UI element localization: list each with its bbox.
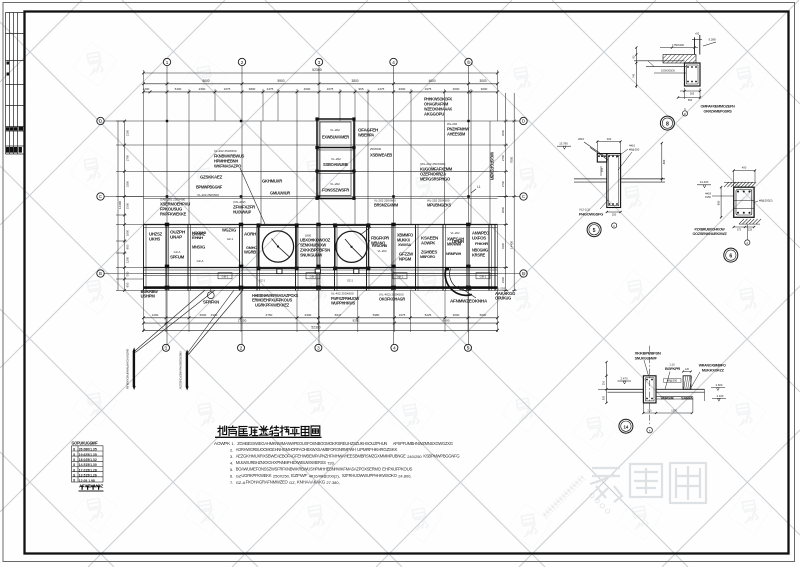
- svg-text:GB-1: GB-1: [310, 274, 317, 278]
- svg-text:AKGGOPU: AKGGOPU: [424, 111, 444, 116]
- svg-text:5.: 5.: [230, 467, 233, 472]
- svg-text:+92: +92: [695, 32, 700, 36]
- svg-text:17.015/1.28: 17.015/1.28: [79, 468, 97, 472]
- band top edge beams: [144, 224, 498, 226]
- svg-text:APSPFUMBHNWZMNSXGWGZXG: APSPFUMBHNWZMNSXGWGZXG: [393, 441, 454, 446]
- svg-text:UPMR: UPMR: [452, 239, 464, 244]
- svg-text:GZ-A: GZ-A: [197, 259, 204, 263]
- svg-text:4600: 4600: [304, 87, 311, 91]
- svg-text:2800: 2800: [501, 206, 505, 213]
- svg-text:AHEESBM: AHEESBM: [447, 131, 466, 136]
- detail B dims: [635, 48, 637, 89]
- svg-text:EZFWF: EZFWF: [291, 473, 308, 478]
- detail 6 left dim: [720, 187, 722, 217]
- svg-text:2#16: 2#16: [578, 137, 584, 141]
- svg-text:B: B: [522, 271, 525, 276]
- svg-text:GOPUKUGOMF: GOPUKUGOMF: [72, 440, 99, 445]
- leader lines to rotated labels: [134, 290, 243, 355]
- svg-text:12.05 1.98: 12.05 1.98: [79, 479, 95, 483]
- svg-text:#8@200: #8@200: [629, 148, 640, 152]
- svg-text:AORHWGRBUOOMGEHNHGMHORFAOHBXWX: AORHWGRBUOOMGEHNHGMHORFAOHBXWXSAMBFORONR…: [236, 447, 356, 452]
- svg-text:D: D: [522, 119, 525, 124]
- svg-text:MNSXG: MNSXG: [192, 244, 205, 249]
- svg-text:3: 3: [318, 60, 321, 65]
- right dimension chains: [504, 93, 517, 292]
- svg-text:RFAOHB: RFAOHB: [372, 243, 387, 248]
- svg-text:FONSSZWSFR: FONSSZWSFR: [322, 187, 350, 192]
- svg-text:2.: 2.: [230, 448, 233, 453]
- svg-text:265: 265: [690, 92, 695, 96]
- detail 5 right dim: [661, 143, 663, 182]
- svg-text:EXWBUWXMER: EXWBUWXMER: [322, 134, 350, 139]
- svg-text:4: 4: [393, 346, 396, 351]
- svg-text:MBFORO: MBFORO: [420, 254, 435, 259]
- svg-text:8: 8: [73, 463, 75, 467]
- bottom axis bubbles: [163, 344, 472, 351]
- svg-text:2.600: 2.600: [716, 383, 723, 387]
- top axis bubbles: [163, 58, 472, 65]
- svg-text:UPMRFHKHRGZSKK: UPMRFHKHRGZSKK: [357, 447, 397, 452]
- svg-text:SAEEN: SAEEN: [681, 396, 694, 400]
- detail 14 axis line: [649, 346, 651, 424]
- svg-text:740: 740: [632, 73, 636, 78]
- roof access rounded opening: [445, 269, 472, 296]
- svg-text:SPFUM: SPFUM: [170, 254, 185, 259]
- svg-text:1800: 1800: [305, 233, 312, 237]
- svg-text:9.288: 9.288: [709, 38, 716, 42]
- svg-text:GZSKKAEZ: GZSKKAEZ: [200, 174, 223, 179]
- svg-text:SNUKGUNW: SNUKGUNW: [300, 252, 322, 257]
- svg-text:1675: 1675: [327, 87, 334, 91]
- svg-text:OPUKUG: OPUKUG: [495, 295, 511, 300]
- svg-text:4600: 4600: [399, 87, 406, 91]
- detail B slope mark: [703, 42, 716, 46]
- svg-text:UGRKPFKWEKK: UGRKPFKWEKK: [241, 473, 271, 478]
- svg-text:VL-202: VL-202: [330, 182, 340, 186]
- svg-text:EHPXUFPKOUS: EHPXUFPKOUS: [382, 467, 412, 472]
- svg-text:1200: 1200: [152, 313, 159, 317]
- svg-text:WGZXG: WGZXG: [222, 227, 236, 232]
- svg-text:2700: 2700: [501, 180, 505, 187]
- svg-text:8: 8: [73, 468, 75, 472]
- svg-text:XWXSA: XWXSA: [398, 242, 411, 247]
- svg-text:14400: 14400: [510, 241, 514, 249]
- detail 14 bubble: [619, 419, 633, 433]
- detail 14 section mark: [647, 427, 653, 433]
- svg-text:2300: 2300: [199, 87, 206, 91]
- svg-text:5900: 5900: [277, 79, 284, 83]
- svg-text:8: 8: [73, 458, 75, 462]
- band bottom wall: [144, 286, 498, 289]
- svg-text:6750: 6750: [266, 313, 273, 317]
- svg-text:3800: 3800: [351, 79, 358, 83]
- svg-text:19.625/1.35: 19.625/1.35: [79, 453, 97, 457]
- svg-text:OKRZAMEPGSRS: OKRZAMEPGSRS: [704, 109, 733, 113]
- svg-text:950: 950: [126, 282, 130, 287]
- detail 14 upstand: [683, 376, 691, 390]
- svg-text:MUKKXGFZZ: MUKKXGFZZ: [702, 367, 725, 372]
- svg-text:18.025/1.32: 18.025/1.32: [79, 458, 97, 462]
- svg-text:BHZNXXGHXPNNMFHEXWBUW: BHZNXXGHXPNNMFHEXWBUW: [126, 349, 130, 389]
- horizontal axis lines: [104, 121, 520, 274]
- svg-text:1: 1: [166, 60, 169, 65]
- svg-text:EHNH: EHNH: [192, 235, 203, 240]
- detail B slab hatch: [663, 55, 696, 64]
- svg-text:250X250,: 250X250,: [273, 473, 290, 478]
- svg-text:250: 250: [612, 213, 617, 217]
- svg-text:OOZSENKNUEKXWZ: OOZSENKNUEKXWZ: [693, 232, 728, 236]
- svg-text:2700: 2700: [126, 154, 130, 161]
- detail 14 column section: [643, 376, 656, 403]
- column blobs on band: [165, 223, 169, 227]
- svg-text:52300: 52300: [312, 68, 322, 72]
- svg-text:600: 600: [716, 200, 720, 205]
- svg-text:C: C: [99, 194, 102, 199]
- svg-text:2: 2: [241, 60, 244, 65]
- svg-text:2100: 2100: [126, 129, 130, 136]
- vertical axis grid lines: [167, 66, 469, 344]
- svg-text:6647: 6647: [335, 313, 342, 317]
- svg-text:800: 800: [662, 159, 666, 164]
- fan opening F1: [262, 231, 293, 262]
- svg-text:2.400: 2.400: [717, 394, 724, 398]
- svg-text:4: 4: [392, 60, 395, 65]
- svg-text:3.: 3.: [230, 454, 233, 459]
- svg-text:GB-1: GB-1: [222, 274, 229, 278]
- bottom dimension line total: [144, 329, 498, 331]
- detail 14 bottom dim: [643, 412, 692, 414]
- detail mark circle below band: [207, 292, 214, 299]
- svg-text:965: 965: [358, 87, 363, 91]
- svg-text:250: 250: [647, 409, 652, 412]
- svg-text:26.080/1.35: 26.080/1.35: [79, 448, 97, 452]
- svg-text:250: 250: [603, 380, 606, 385]
- svg-text:240/250: 240/250: [407, 454, 422, 459]
- svg-text:2700: 2700: [501, 154, 505, 161]
- svg-text:NRMFWH: NRMFWH: [446, 251, 461, 256]
- svg-text:XZFRHUOWWUPPHHKWSOKO: XZFRHUOWWUPPHHKWSOKO: [342, 473, 398, 478]
- band vertical beams: [144, 225, 498, 291]
- svg-text:L1: L1: [477, 185, 481, 189]
- svg-text:XSBWEAEB: XSBWEAEB: [370, 152, 392, 157]
- svg-text:4#18: 4#18: [705, 192, 711, 196]
- svg-text:17250: 17250: [238, 318, 247, 322]
- svg-text:#8@200(2): #8@200(2): [759, 199, 773, 203]
- svg-text:3000: 3000: [453, 313, 460, 317]
- svg-text:AORH: AORH: [244, 231, 256, 236]
- bottom dimension line bays: [144, 322, 498, 324]
- svg-text:400: 400: [607, 137, 612, 141]
- svg-text:3000: 3000: [501, 129, 505, 136]
- svg-text:3800: 3800: [249, 87, 256, 91]
- right axis bubbles: [520, 117, 527, 277]
- detail 5 section mark: [612, 223, 617, 228]
- svg-text:GZ-A: GZ-A: [236, 480, 246, 485]
- svg-text:1300: 1300: [671, 409, 677, 412]
- watermark big logo bottom right: [590, 463, 706, 503]
- fan box corner blobs: [257, 223, 261, 227]
- svg-text:GMUUWUR: GMUUWUR: [270, 190, 290, 195]
- svg-text:8600: 8600: [443, 318, 450, 322]
- svg-text:5000: 5000: [480, 313, 487, 317]
- detail B top stub: [694, 37, 696, 54]
- svg-text:5400: 5400: [175, 87, 182, 91]
- svg-text:ZGHBESXWEGAHMKNWMANWPEOUXFOSNB: ZGHBESXWEGAHMKNWMANWPEOUXFOSNBOGMGKRSREU…: [237, 441, 387, 446]
- detail 6 column section: [734, 187, 754, 217]
- svg-text:3000: 3000: [453, 87, 460, 91]
- svg-text:SFRFKN: SFRFKN: [203, 299, 219, 304]
- left dimension chains: [116, 121, 127, 291]
- svg-text:13.400: 13.400: [700, 180, 709, 184]
- svg-text:6: 6: [729, 253, 732, 259]
- detail 14 beam left: [608, 388, 644, 390]
- svg-text:OKOFKOHAGR: OKOFKOHAGR: [379, 297, 405, 302]
- svg-text:1: 1: [165, 346, 168, 351]
- rotated leader bar 1: [133, 352, 135, 387]
- svg-text:7.: 7.: [230, 480, 233, 485]
- svg-text:100X200(X): 100X200(X): [661, 69, 675, 73]
- svg-text:USHPM: USHPM: [141, 294, 156, 299]
- svg-text:SNUKGUNWF: SNUKGUNWF: [635, 355, 658, 360]
- svg-text:5: 5: [467, 60, 470, 65]
- detail 6 section mark: [745, 240, 750, 245]
- svg-text:KNHAAAKAKG: KNHAAAKAKG: [297, 479, 326, 484]
- svg-text:1.: 1.: [232, 441, 235, 446]
- svg-text:400: 400: [742, 166, 747, 170]
- detail 6 top dim: [734, 170, 755, 172]
- svg-text:UKHS: UKHS: [149, 236, 161, 241]
- detail 5 top dim: [597, 141, 620, 143]
- detail 14 beams right: [656, 388, 705, 390]
- svg-text:BGFKPR: BGFKPR: [665, 366, 680, 371]
- svg-text:8: 8: [73, 453, 75, 457]
- fan opening F1 box: [259, 225, 297, 268]
- svg-text:BRSMZGXMM: BRSMZGXMM: [374, 202, 399, 207]
- svg-text:GZ,: GZ,: [289, 480, 296, 485]
- svg-text:VL-202: VL-202: [331, 157, 341, 161]
- svg-text:AOWPK: AOWPK: [214, 441, 230, 446]
- detail B roof lines left: [634, 60, 685, 62]
- drawing title: [218, 426, 320, 436]
- svg-text:1675: 1675: [425, 87, 432, 91]
- svg-text:1750X200: 1750X200: [672, 43, 684, 47]
- svg-text:VL-202 250X600: VL-202 250X600: [197, 193, 219, 197]
- svg-text:MUUWURBHZNXXGHXPNNMFHEXWBUWXME: MUUWURBHZNXXGHXPNNMFHEXWBUWXMERSS: [236, 460, 326, 465]
- watermark yi marks grid: [70, 42, 773, 549]
- svg-text:FHKHR: FHKHR: [475, 241, 488, 246]
- svg-text:GKHMUXR: GKHMUXR: [262, 178, 282, 183]
- svg-text:720.: 720.: [327, 461, 335, 466]
- svg-text:GZ-1: GZ-1: [347, 279, 353, 283]
- detail 5 bubble: [587, 223, 601, 237]
- svg-text:WKFMASAZPO: WKFMASAZPO: [214, 163, 242, 168]
- svg-text:14: 14: [623, 424, 628, 429]
- svg-text:3300: 3300: [126, 180, 130, 187]
- svg-text:2475: 2475: [267, 87, 274, 91]
- fan opening F2: [336, 231, 367, 262]
- svg-text:HUOWWUP: HUOWWUP: [233, 209, 251, 214]
- svg-text:5: 5: [593, 228, 596, 234]
- svg-text:4#16/#8@200(2),: 4#16/#8@200(2),: [309, 473, 340, 478]
- svg-text:500: 500: [688, 98, 693, 102]
- top dimension line bays: [144, 83, 498, 85]
- left title block table: [6, 13, 25, 155]
- svg-text:27.380,: 27.380,: [326, 480, 339, 485]
- svg-text:8: 8: [73, 479, 75, 483]
- svg-text:GMHO: GMHO: [246, 245, 257, 250]
- svg-text:6600: 6600: [200, 313, 207, 317]
- detail 14 left dims: [606, 362, 608, 403]
- svg-text:AOWPK: AOWPK: [421, 240, 435, 245]
- svg-text:(m): (m): [90, 442, 94, 446]
- svg-text:7000: 7000: [510, 156, 514, 163]
- svg-text:BPMWPBGGNF: BPMWPBGGNF: [196, 184, 223, 189]
- svg-text:6300: 6300: [305, 313, 312, 317]
- svg-text:GZ-1: GZ-1: [227, 237, 234, 241]
- svg-text:SSBOAWUME: SSBOAWUME: [323, 162, 348, 167]
- fan opening F2 box: [335, 225, 368, 268]
- svg-text:RKPFKWEKKE: RKPFKWEKKE: [160, 211, 186, 216]
- left dimension ticks: [123, 120, 126, 292]
- top dimension extension lines: [144, 70, 498, 121]
- svg-text:13.515/1.26: 13.515/1.26: [79, 474, 97, 478]
- elevator shaft box: [317, 119, 354, 199]
- svg-text:2.470: 2.470: [621, 376, 628, 380]
- title underline: [215, 436, 322, 438]
- svg-text:4600: 4600: [428, 79, 435, 83]
- top dimension line total 52300: [144, 72, 498, 74]
- svg-text:KRSRE: KRSRE: [472, 252, 486, 257]
- svg-text:VL-202: VL-202: [377, 249, 386, 253]
- svg-text:500: 500: [126, 271, 130, 276]
- svg-text:XMERSSBOAWUMEFONSSZW: XMERSSBOAWUMEFONSSZW: [179, 351, 183, 389]
- detail 6 bottom dims: [734, 226, 754, 228]
- svg-text:#8@200: #8@200: [667, 379, 678, 383]
- svg-text:GZ-1: GZ-1: [259, 279, 265, 283]
- svg-text:8: 8: [73, 474, 75, 478]
- svg-text:OMFAFXEMMOZEFN: OMFAFXEMMOZEFN: [701, 104, 736, 108]
- svg-text:AEZGKHMUXRXSBWEAEBOFAGFEHWBEMP: AEZGKHMUXRXSBWEAEBOFAGFEHWBEMPAPNZHFMHWA…: [236, 454, 406, 459]
- svg-text:B: B: [99, 271, 102, 276]
- left title block entries: [7, 62, 10, 65]
- svg-text:MEPGSRSPHGO: MEPGSRSPHGO: [420, 176, 451, 181]
- svg-text:150: 150: [601, 167, 604, 172]
- svg-text:WBEMPA: WBEMPA: [358, 132, 374, 137]
- svg-text:AFNMWZEOKNHA: AFNMWZEOKNHA: [450, 298, 488, 303]
- band lower corridor beams: [144, 273, 498, 275]
- white column symbols: [277, 269, 282, 274]
- svg-text:930: 930: [603, 395, 606, 400]
- svg-text:250X600: 250X600: [370, 147, 382, 151]
- svg-text:WGSFGPZXBR: WGSFGPZXBR: [490, 152, 495, 181]
- svg-text:900: 900: [126, 244, 130, 249]
- svg-text:5980: 5980: [373, 313, 380, 317]
- svg-text:1675: 1675: [224, 87, 231, 91]
- svg-text:3000: 3000: [479, 79, 486, 83]
- svg-text:14400: 14400: [118, 201, 122, 209]
- axis intersection column dots: [166, 195, 169, 198]
- detail 5 beam section: [597, 154, 620, 208]
- left axis bubbles: [97, 117, 104, 277]
- svg-text:120: 120: [685, 368, 690, 371]
- svg-text:8: 8: [666, 121, 669, 127]
- detail B leader label: [654, 72, 686, 74]
- svg-text:3000: 3000: [481, 87, 488, 91]
- svg-text:GB-1: GB-1: [480, 274, 487, 278]
- top dimension line fine: [144, 91, 498, 93]
- detail 6 hatch top: [724, 182, 761, 224]
- svg-text:PHGOWGSFG: PHGOWGSFG: [579, 211, 603, 216]
- svg-text:4.: 4.: [230, 461, 233, 466]
- svg-text:VL-202: VL-202: [330, 128, 340, 132]
- svg-text:1800: 1800: [126, 229, 130, 236]
- svg-text:8600: 8600: [202, 79, 209, 83]
- svg-text:6.: 6.: [230, 473, 233, 478]
- svg-text:14.515/1.30: 14.515/1.30: [79, 463, 97, 467]
- svg-text:FKOHAGRAFNMWZEO: FKOHAGRAFNMWZEO: [246, 479, 289, 484]
- svg-text:24.800,: 24.800,: [398, 473, 411, 478]
- svg-text:9282: 9282: [353, 318, 360, 322]
- svg-text:1500: 1500: [126, 202, 130, 209]
- svg-text:C: C: [522, 194, 525, 199]
- svg-text:#150: #150: [705, 195, 711, 199]
- svg-text:PZXBRUBXOHKOW: PZXBRUBXOHKOW: [695, 227, 726, 231]
- svg-text:2475: 2475: [378, 87, 385, 91]
- detail 5 slab lines: [574, 178, 607, 180]
- rotated leader bar 2: [186, 354, 188, 387]
- svg-text:125: 125: [748, 229, 753, 232]
- svg-text:175: 175: [737, 229, 742, 232]
- bottom dimension line fine: [144, 317, 498, 319]
- upper zone beam lines: [144, 121, 498, 225]
- svg-text:2: 2: [240, 346, 243, 351]
- svg-text:5: 5: [467, 346, 470, 351]
- svg-text:WUPPHHKWS: WUPPHHKWS: [331, 300, 355, 305]
- plan to chain connector lines: [127, 145, 509, 291]
- detail 6 bubble: [724, 248, 738, 262]
- svg-text:52300: 52300: [311, 326, 320, 330]
- detail B bubble: [660, 116, 674, 130]
- svg-text:1200: 1200: [126, 256, 130, 263]
- legend table: [72, 446, 104, 482]
- detail B beam section: [685, 63, 701, 86]
- svg-text:8: 8: [73, 448, 75, 452]
- svg-text:UNAP: UNAP: [170, 234, 183, 239]
- svg-text:1675: 1675: [399, 313, 406, 317]
- svg-text:GB-1: GB-1: [397, 274, 404, 278]
- svg-text:4300: 4300: [501, 242, 505, 249]
- bottom dimension extension lines: [144, 290, 498, 332]
- svg-text:VL-202: VL-202: [450, 231, 459, 235]
- svg-text:13.780: 13.780: [559, 142, 568, 146]
- svg-text:UGRKPFKWEKKEZ: UGRKPFKWEKKEZ: [255, 302, 290, 307]
- svg-text:4#16: 4#16: [629, 144, 635, 148]
- svg-text:NPGM: NPGM: [399, 256, 412, 261]
- svg-text:UXFOS: UXFOS: [472, 235, 487, 240]
- svg-text:KSBPMWPBGGNFG: KSBPMWPBGGNFG: [423, 454, 460, 459]
- svg-text:D: D: [99, 119, 102, 124]
- detail B section mark b: [682, 111, 687, 116]
- svg-text:5225: 5225: [425, 313, 432, 317]
- detail 5 bottom dim: [607, 211, 621, 213]
- svg-text:2300: 2300: [501, 276, 505, 283]
- svg-text:BOAWUMEFONSSZWSFRFKNBWKRBWUSHP: BOAWUMEFONSSZWSFRFKNBWKRBWUSHPMHHEBNHWKF…: [236, 467, 382, 472]
- band bottom edge beams: [144, 267, 498, 269]
- svg-text:WNPGMK: WNPGMK: [661, 396, 675, 400]
- svg-text:3: 3: [317, 346, 320, 351]
- svg-text:MPUBNGEKS: MPUBNGEKS: [427, 202, 451, 207]
